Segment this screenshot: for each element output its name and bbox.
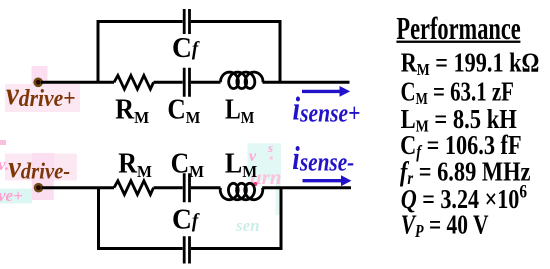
capacitor C_M (bottom) plates [184,173,189,202]
inductor L_M (top) [221,72,264,88]
ghost red dot on bottom coil [253,182,257,186]
highlight strip behind v_drive+ dot [32,66,48,112]
label C_M top [167,94,200,127]
label v_drive+ [6,75,75,111]
svg-text:ve+: ve+ [0,186,23,205]
row f_r value [400,157,531,188]
highlight box behind v_drive- label [5,154,77,181]
cyan ghost patch near L_M [247,143,281,180]
row V_P value [401,210,489,241]
row Q value [401,181,528,215]
row L_M value [401,105,518,136]
pink dash top left edge [0,140,6,145]
title underline [396,41,520,43]
highlight strip behind v_drive- dot [32,153,54,200]
label C_f top [172,32,201,64]
wire C_M to inductor [191,186,221,189]
arrow i_sense+ [302,90,341,93]
inductor L_M (bottom) [220,183,263,199]
node dot v_drive- [34,183,44,193]
resistor R_M (top) [114,75,154,89]
label R_M top [115,94,150,127]
capacitor C_f (top) plates [184,9,189,34]
row C_M value [401,77,514,109]
title Performance [396,10,520,46]
node dot v_drive+ [33,78,43,88]
label L_M top [225,94,254,127]
top feedback branch: left leg and top wire [98,22,183,83]
highlight box behind v_drive+ label [5,84,80,112]
cyan ghost patch left edge [0,189,32,204]
svg-text:fr = 6.89 MHz: fr = 6.89 MHz [400,157,531,188]
wire resistor to C_M [154,186,183,189]
resistor R_M (bottom) [114,181,154,195]
bottom wire right and right leg [191,188,281,249]
capacitor C_M (top) plates [184,68,189,97]
row C_f value [400,131,521,162]
bottom feedback branch: left leg and bottom wire [99,188,183,249]
svg-text:s: s [267,140,273,155]
wire C_M to inductor [191,81,221,84]
row R_M value [401,49,540,80]
ghost pink mark 2 [270,157,273,160]
svg-text:sen: sen [235,216,260,235]
label i_sense- [292,139,354,177]
wire inductor to i_sense+ [263,81,350,84]
label v_drive- [8,151,70,185]
label i_sense+ [293,90,361,128]
label L_M bottom [225,148,258,181]
wire resistor to C_M [154,81,183,84]
label R_M bottom [118,148,152,181]
capacitor C_f (bottom) plates [184,236,189,263]
arrow i_sense- [303,179,342,182]
wire inductor to i_sense- [262,186,351,189]
wire from v_drive- to resistor [42,186,115,189]
top wire right and right leg [191,22,280,83]
wire from v_drive+ to resistor [41,81,114,84]
label C_f bottom [172,204,201,236]
label C_M bottom [171,148,204,181]
cyan ghost strip right [276,180,281,215]
svg-text:VP = 40 V: VP = 40 V [401,210,489,241]
